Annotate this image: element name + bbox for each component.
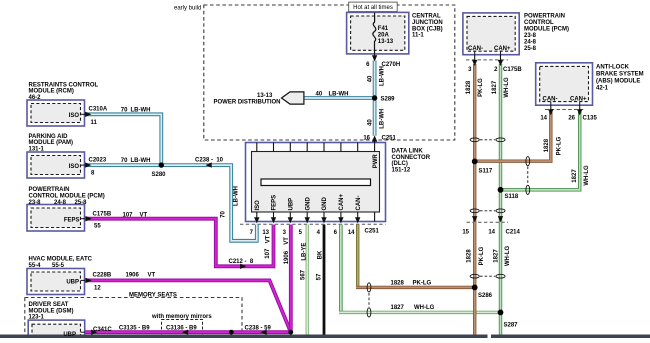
value label 40 LB-WH (power distribution wire) xyxy=(316,92,349,98)
label module PCM-right xyxy=(468,13,569,52)
value label VT / 1906 on UBP riser xyxy=(284,237,290,265)
wire CAN+ 1827 WH-LG horizontal to S287 xyxy=(339,311,500,314)
svg-text:(DLC): (DLC) xyxy=(392,161,408,167)
svg-text:1827: 1827 xyxy=(391,305,405,311)
svg-text:MODULE (DSM): MODULE (DSM) xyxy=(29,308,74,314)
svg-text:ANTI-LOCK: ANTI-LOCK xyxy=(596,65,630,71)
wire UBP 1906 VT from HVAC to splice node at DSM bus xyxy=(85,280,291,332)
svg-text:S289: S289 xyxy=(381,96,396,102)
DLC slot xyxy=(261,179,371,186)
svg-text:24-8: 24-8 xyxy=(54,200,67,206)
wire UBP VT from DSM through C3135/C3136/C238 to splice node xyxy=(85,330,291,334)
value label 1828 / PK-LG (PCM CAN-) xyxy=(466,78,484,97)
label DLC xyxy=(392,149,431,174)
wire FEPS 107 VT from PCM through C212 pin 8 to DLC pin 13 xyxy=(85,219,274,267)
memory seats dashed region xyxy=(25,298,242,339)
svg-text:CAN+: CAN+ xyxy=(570,97,587,103)
svg-text:JUNCTION: JUNCTION xyxy=(412,20,443,26)
value label LB-YE / 567 on GND wire xyxy=(300,243,307,280)
svg-text:DRIVER SEAT: DRIVER SEAT xyxy=(29,302,69,308)
svg-text:WH-LG: WH-LG xyxy=(414,305,435,311)
value label 1828 / PK-LG (ABS CAN-) xyxy=(544,136,562,155)
DLC top pin stubs xyxy=(257,143,375,152)
svg-text:DATA LINK: DATA LINK xyxy=(392,149,424,155)
svg-text:C175B: C175B xyxy=(503,67,522,73)
label module ABS xyxy=(543,65,644,103)
svg-text:1906: 1906 xyxy=(284,250,290,264)
module PCM-right box xyxy=(463,13,519,55)
pin label 16 C251 at DLC top xyxy=(363,135,396,141)
connector C214 arrows pins 15,14 xyxy=(472,216,503,222)
svg-text:131-1: 131-1 xyxy=(29,147,45,153)
svg-text:S287: S287 xyxy=(504,323,519,329)
svg-text:LB-WH: LB-WH xyxy=(131,158,151,164)
data link connector DLC outer box xyxy=(246,143,386,222)
splice S117 xyxy=(472,159,478,165)
splice S286 xyxy=(472,285,478,291)
connector C341C arrow at DSM output xyxy=(91,330,97,335)
svg-text:CONTROL MODULE (PCM): CONTROL MODULE (PCM) xyxy=(29,194,105,200)
value label 1827 WH-LG (horizontal to S287) xyxy=(391,305,435,311)
label module RCM xyxy=(29,82,99,119)
svg-text:WH-LG: WH-LG xyxy=(504,77,510,98)
label module DSM xyxy=(29,302,77,338)
svg-text:57: 57 xyxy=(316,273,322,280)
connector C251 dashed boundary line below DLC xyxy=(240,223,386,225)
svg-text:C214: C214 xyxy=(506,229,521,235)
wire ISO 70 LB-WH from RCM to S280 xyxy=(85,114,162,165)
connector C2023 arrow at PAM output xyxy=(85,162,91,167)
svg-text:C310A: C310A xyxy=(89,107,108,113)
svg-text:VT: VT xyxy=(148,273,156,279)
value label 40 / LB-WH above S289 xyxy=(367,66,385,86)
svg-text:C228B: C228B xyxy=(93,273,112,279)
svg-text:C3135 - B9: C3135 - B9 xyxy=(119,326,150,332)
svg-text:40: 40 xyxy=(367,119,373,126)
connector C175B dashed boundary line at PCM xyxy=(466,59,508,61)
connector C238 pin 10 in-line arrow xyxy=(206,162,212,167)
fuse F41 20A symbol xyxy=(373,13,376,54)
wire GND 567 LB-YE from DLC pin 5 to bottom xyxy=(306,225,309,335)
connector C251 pin 16 arrow at DLC top xyxy=(372,135,377,142)
module PAM box xyxy=(27,152,85,178)
svg-text:VT: VT xyxy=(284,237,290,245)
splice S287 xyxy=(498,310,504,316)
svg-text:CONTROL: CONTROL xyxy=(524,20,554,26)
svg-text:CENTRAL: CENTRAL xyxy=(412,14,441,20)
wire CAN+ 1827 WH-LG from ABS pin 26 to S118 xyxy=(502,112,580,190)
module PCM-left box xyxy=(27,205,85,232)
svg-text:PARKING AID: PARKING AID xyxy=(29,134,69,140)
value label 1828 PK-LG (horizontal to S286) xyxy=(391,280,432,286)
twisted pair symbol above C214 xyxy=(470,209,505,213)
svg-text:BK: BK xyxy=(317,250,323,259)
svg-text:RESTRAINTS CONTROL: RESTRAINTS CONTROL xyxy=(29,82,99,88)
wire CAN- 1828 PK-LG from ABS pin 14 to S117 xyxy=(476,112,550,161)
twisted pair symbol on S117/S118 horizontal CAN pair xyxy=(526,157,530,195)
svg-text:C135: C135 xyxy=(583,116,598,122)
svg-text:151-12: 151-12 xyxy=(392,167,411,173)
value label LB-WH / 70 on ISO drop xyxy=(221,186,240,218)
wire CAN- 1828 PK-LG from DLC pin 14 down xyxy=(356,225,359,288)
svg-text:1828: 1828 xyxy=(544,138,550,152)
wire PWR 40 LB-WH from POWER DISTRIBUTION to S289 xyxy=(304,96,375,100)
svg-text:1828: 1828 xyxy=(466,80,472,94)
wire GND 57 BK from DLC pin 4 to bottom xyxy=(323,225,326,335)
connector C270H arrow below CJB xyxy=(372,54,377,62)
module HVAC box xyxy=(27,269,85,295)
page edge bar bottom xyxy=(0,335,650,339)
svg-text:UBP: UBP xyxy=(289,198,295,211)
svg-text:BOX (CJB): BOX (CJB) xyxy=(412,26,443,32)
connector C212 pin 8 in-line arrow xyxy=(240,264,246,269)
svg-text:C251: C251 xyxy=(365,228,380,234)
svg-text:WH-LG: WH-LG xyxy=(584,165,590,186)
svg-text:ISO: ISO xyxy=(69,113,80,119)
splice S280 xyxy=(159,162,164,167)
svg-text:40: 40 xyxy=(316,92,323,98)
svg-text:FEPS: FEPS xyxy=(64,218,80,224)
svg-text:S280: S280 xyxy=(152,172,167,178)
svg-text:40: 40 xyxy=(367,75,373,82)
svg-text:LB-WH: LB-WH xyxy=(380,109,386,129)
svg-text:LB-WH: LB-WH xyxy=(234,186,240,206)
svg-text:LB-WH: LB-WH xyxy=(329,92,349,98)
svg-text:MODULE (RCM): MODULE (RCM) xyxy=(29,89,74,95)
svg-text:13-13: 13-13 xyxy=(257,93,273,99)
svg-text:C3136 - B9: C3136 - B9 xyxy=(166,326,197,332)
value label VT / 107 on FEPS riser xyxy=(265,235,272,258)
svg-text:LB-WH: LB-WH xyxy=(380,66,386,86)
svg-text:S286: S286 xyxy=(478,293,493,299)
splice node on DSM bus at memory seats boundary xyxy=(229,330,234,335)
svg-text:1828: 1828 xyxy=(391,280,405,286)
svg-text:70: 70 xyxy=(121,158,128,164)
pin label C228B 12 xyxy=(93,273,112,292)
pin label 6 C270H xyxy=(366,62,400,68)
svg-text:UBP: UBP xyxy=(66,280,79,286)
svg-text:C2023: C2023 xyxy=(89,157,107,163)
svg-text:VT: VT xyxy=(140,212,148,218)
svg-text:S118: S118 xyxy=(505,194,519,200)
svg-text:14: 14 xyxy=(540,116,547,122)
svg-text:24-8: 24-8 xyxy=(524,39,537,45)
wire UBP 1906 VT from DLC pin 3 down to splice node xyxy=(289,225,293,333)
svg-text:C238 - 59: C238 - 59 xyxy=(245,326,272,332)
svg-text:GND: GND xyxy=(322,197,328,211)
Hot at all times label box xyxy=(349,2,398,12)
wire stub pin 16 into DLC PWR xyxy=(374,139,376,143)
svg-text:55-4: 55-4 xyxy=(29,263,42,269)
pin label C310A 11 xyxy=(89,107,108,126)
svg-text:PK-LG: PK-LG xyxy=(478,78,484,97)
svg-text:PK-LG: PK-LG xyxy=(413,280,432,286)
DLC inner body xyxy=(252,152,380,213)
module ABS box xyxy=(536,63,593,105)
svg-text:C238 - 10: C238 - 10 xyxy=(195,157,224,163)
pin label 14 26 C135 xyxy=(540,116,597,122)
connector C175B arrows below PCM pins 3,2 xyxy=(472,55,503,66)
svg-text:MEMORY SEATS: MEMORY SEATS xyxy=(129,292,177,298)
pin label 3 2 C175B xyxy=(468,67,522,73)
splice node UBP junction DLC pin 3 / HVAC / DSM xyxy=(288,330,293,335)
value label 107 VT (FEPS wire) xyxy=(123,212,148,218)
value label 40 / LB-WH below S289 xyxy=(367,109,385,129)
DLC pin names ISO FEPS UBP GND GND CAN+ CAN- xyxy=(255,194,362,211)
label module PCM-left xyxy=(29,187,105,224)
pin label 15 14 C214 xyxy=(462,229,520,235)
wire CAN- 1828 PK-LG from PCM pin 3 through S117, C214 pin 15, S286 to bottom xyxy=(473,64,476,335)
svg-text:25-8: 25-8 xyxy=(75,200,88,206)
value label 1827 / WH-LG (PCM CAN+) xyxy=(492,77,510,98)
svg-text:BRAKE SYSTEM: BRAKE SYSTEM xyxy=(596,72,644,78)
svg-text:PK-LG: PK-LG xyxy=(556,136,562,155)
svg-text:F41: F41 xyxy=(378,26,389,32)
svg-text:70: 70 xyxy=(121,107,128,113)
svg-text:1827: 1827 xyxy=(493,249,499,263)
svg-text:PWR: PWR xyxy=(373,154,379,169)
svg-text:13-13: 13-13 xyxy=(378,39,394,45)
splice S118 xyxy=(498,187,504,193)
svg-text:14: 14 xyxy=(348,230,355,236)
svg-text:WH-LG: WH-LG xyxy=(505,246,511,267)
connector C238 pin 59 in-line arrow xyxy=(261,330,267,335)
svg-text:early build: early build xyxy=(174,6,201,12)
wire PWR 40 LB-WH from CJB fuse F41 through S289 to DLC pin 16 xyxy=(373,61,377,136)
svg-text:UBP: UBP xyxy=(63,332,76,338)
svg-text:C212 - 8: C212 - 8 xyxy=(229,259,254,265)
svg-text:567: 567 xyxy=(300,269,306,280)
svg-text:HVAC MODULE, EATC: HVAC MODULE, EATC xyxy=(29,257,93,263)
svg-text:LB-WH: LB-WH xyxy=(131,107,151,113)
wire CAN+ 1827 WH-LG from PCM pin 2 through S118, C214 pin 14, S287 to bottom xyxy=(499,64,502,335)
svg-text:CAN+: CAN+ xyxy=(494,46,511,52)
central junction box CJB xyxy=(347,12,409,54)
svg-text:11: 11 xyxy=(91,120,98,126)
svg-text:1906: 1906 xyxy=(126,273,140,279)
value label 70 LB-WH (PAM wire) xyxy=(121,158,151,164)
svg-text:20A: 20A xyxy=(378,32,390,38)
svg-text:MODULE (PAM): MODULE (PAM) xyxy=(29,140,74,146)
svg-text:1827: 1827 xyxy=(572,169,578,183)
wire CAN+ 1827 WH-LG from DLC pin 6 down xyxy=(339,225,342,313)
svg-text:C175B: C175B xyxy=(93,212,112,218)
svg-text:PK-LG: PK-LG xyxy=(479,246,485,265)
module RCM box xyxy=(27,100,85,126)
svg-text:11-1: 11-1 xyxy=(412,33,424,39)
DLC bottom connector C251 arrows pins 7,13,3,5,4,6,14 xyxy=(254,217,360,223)
svg-text:16: 16 xyxy=(363,135,370,141)
label CJB xyxy=(412,14,443,39)
connector C135 arrows below ABS pins 14,26 xyxy=(548,105,582,115)
value label 1906 VT (HVAC wire) xyxy=(126,273,156,279)
splice S289 xyxy=(372,95,377,100)
early build dashed region xyxy=(204,5,455,140)
svg-text:1827: 1827 xyxy=(492,80,498,94)
value label 70 LB-WH (RCM wire) xyxy=(121,107,151,113)
svg-text:42-1: 42-1 xyxy=(596,86,609,92)
svg-text:C341C: C341C xyxy=(93,327,112,333)
label module HVAC xyxy=(29,257,93,286)
svg-text:VT: VT xyxy=(266,235,272,243)
twisted pair symbol above S286/S287 xyxy=(470,274,505,278)
connector C310A arrow at RCM output xyxy=(85,112,92,117)
svg-text:CAN+: CAN+ xyxy=(339,194,345,211)
svg-text:23-8: 23-8 xyxy=(29,200,42,206)
svg-text:13: 13 xyxy=(262,230,269,236)
svg-text:(ABS) MODULE: (ABS) MODULE xyxy=(596,79,640,85)
svg-text:with memory mirrors: with memory mirrors xyxy=(151,314,212,320)
pin label C175B 55 xyxy=(93,212,112,230)
value label 1827 / WH-LG below C214 xyxy=(493,246,511,267)
svg-text:14: 14 xyxy=(488,229,495,235)
svg-text:ISO: ISO xyxy=(69,164,80,170)
connector C228B arrow at HVAC output xyxy=(86,278,92,283)
svg-text:46-2: 46-2 xyxy=(29,95,42,101)
svg-text:107: 107 xyxy=(265,248,271,259)
svg-text:26: 26 xyxy=(568,116,575,122)
svg-text:107: 107 xyxy=(123,212,134,218)
DLC bottom pin stubs xyxy=(257,212,375,222)
wire ISO 70 LB-WH from PAM to S280 xyxy=(85,163,162,167)
twisted pair symbol on PCM CAN wires xyxy=(470,138,505,142)
svg-text:GND: GND xyxy=(305,197,311,211)
label module PAM xyxy=(29,134,80,170)
svg-text:LB-YE: LB-YE xyxy=(301,243,307,261)
value label fuse F41 20A 13-13 xyxy=(378,26,394,45)
svg-text:CAN-: CAN- xyxy=(543,97,558,103)
svg-text:Hot at all times: Hot at all times xyxy=(353,5,393,11)
svg-text:S117: S117 xyxy=(479,169,493,175)
svg-text:POWER DISTRIBUTION: POWER DISTRIBUTION xyxy=(214,100,281,106)
svg-text:CONNECTOR: CONNECTOR xyxy=(392,155,431,161)
svg-text:55: 55 xyxy=(94,223,101,229)
svg-text:55-5: 55-5 xyxy=(52,263,65,269)
connector C135 dashed boundary line at ABS xyxy=(545,109,585,111)
value label 1827 / WH-LG (ABS CAN+) xyxy=(572,165,590,186)
connector C175B arrow at PCM-left output xyxy=(86,216,92,221)
wire ISO 70 LB-WH from S280 through C238 pin 10 to DLC pin 7 xyxy=(161,165,256,241)
svg-text:123-1: 123-1 xyxy=(29,315,45,321)
svg-text:MODULE (PCM): MODULE (PCM) xyxy=(524,26,569,32)
svg-text:ISO: ISO xyxy=(255,200,261,211)
connector C3136 dashed box (with memory mirrors) xyxy=(162,320,203,337)
connector C3136 pin B9 in-line arrow xyxy=(182,330,188,335)
pin label C2023 8 xyxy=(89,157,107,176)
svg-text:FEPS: FEPS xyxy=(272,195,278,211)
DLC pin numbers 7 13 3 5 4 6 14 C251 xyxy=(250,228,380,236)
label off-page 13-13 POWER DISTRIBUTION xyxy=(214,93,281,105)
connector C214 dashed boundary line xyxy=(467,221,509,223)
twisted pair symbol on DLC CAN pigtails xyxy=(367,283,371,317)
svg-text:C251: C251 xyxy=(382,135,397,141)
svg-text:CAN-: CAN- xyxy=(356,196,362,211)
svg-text:25-8: 25-8 xyxy=(524,46,537,52)
svg-text:70: 70 xyxy=(221,211,227,218)
svg-text:1828: 1828 xyxy=(466,249,472,263)
off-page reference POWER DISTRIBUTION symbol xyxy=(282,92,304,104)
svg-text:CAN-: CAN- xyxy=(468,46,483,52)
module DSM box xyxy=(28,320,85,338)
svg-text:23-8: 23-8 xyxy=(524,33,537,39)
svg-text:15: 15 xyxy=(462,229,469,235)
wire CAN- 1828 PK-LG horizontal to S286 xyxy=(356,286,475,289)
svg-text:POWERTRAIN: POWERTRAIN xyxy=(524,13,565,19)
value label BK / 57 on GND wire xyxy=(316,250,323,280)
svg-text:12: 12 xyxy=(94,286,101,292)
value label 1828 / PK-LG below C214 xyxy=(466,246,485,265)
svg-text:POWERTRAIN: POWERTRAIN xyxy=(29,187,70,193)
